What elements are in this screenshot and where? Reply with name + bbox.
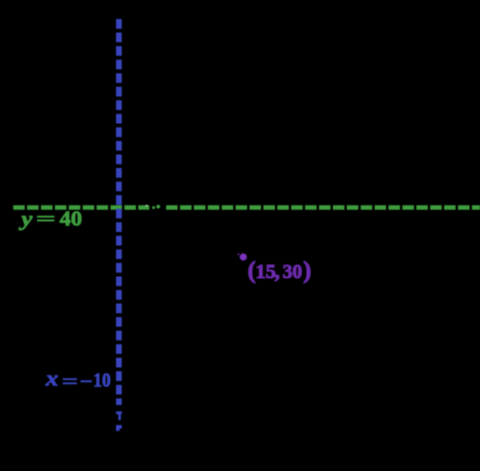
node gap artifact on green line — [149, 203, 165, 212]
wire: green dashed horizontal line y = 40 — [13, 205, 480, 210]
node point (15, 30) — [240, 253, 247, 260]
node blue line bottom fragments — [116, 411, 122, 414]
wire: blue dashed vertical line x = -10 — [116, 19, 122, 405]
svg-text:40: 40 — [60, 208, 82, 230]
node label x = -10 : minus bar — [81, 380, 92, 382]
node label y = 40 : equals bars — [37, 216, 54, 218]
svg-text:x: x — [45, 366, 59, 391]
node label x = -10 : equals bars — [63, 378, 77, 380]
svg-text:(15,30): (15,30) — [248, 258, 312, 284]
svg-text:10: 10 — [93, 370, 111, 392]
